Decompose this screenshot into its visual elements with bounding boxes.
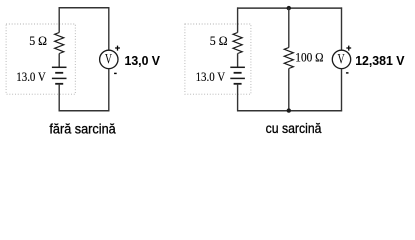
svg-text:13,0 V: 13,0 V bbox=[125, 53, 161, 68]
wire: source branch top (right circuit) bbox=[237, 7, 239, 32]
voltmeter M2 (right circuit) bbox=[332, 50, 350, 68]
wire: resistor to battery (left circuit) bbox=[58, 54, 60, 68]
dotted box: ideal source boundary (left circuit) bbox=[6, 24, 75, 94]
wire: source branch top (left circuit) bbox=[58, 7, 60, 32]
battery B1 13.0 V (left circuit) bbox=[52, 67, 67, 84]
wire: voltmeter branch bottom (left circuit) bbox=[108, 69, 110, 112]
node: bottom junction (right circuit) bbox=[287, 108, 291, 112]
svg-text:fără sarcină: fără sarcină bbox=[49, 121, 115, 137]
wire: voltmeter branch top (right circuit) bbox=[341, 7, 343, 50]
wire: bottom rail (left circuit) bbox=[59, 110, 110, 112]
wire: top rail (right circuit) bbox=[237, 7, 342, 9]
wire: battery to bottom rail (right circuit) bbox=[237, 84, 239, 112]
resistor R1 (internal resistance, left circuit) bbox=[55, 33, 64, 54]
svg-text:cu sarcină: cu sarcină bbox=[266, 120, 322, 136]
dotted box: ideal source boundary (right circuit) bbox=[185, 24, 251, 94]
wire: voltmeter branch bottom (right circuit) bbox=[341, 69, 343, 112]
resistor R3 100 Ω load (right circuit) bbox=[284, 48, 293, 69]
battery B2 13.0 V (right circuit) bbox=[230, 67, 245, 84]
wire: battery to bottom rail (left circuit) bbox=[58, 84, 60, 112]
svg-text:5 Ω: 5 Ω bbox=[29, 34, 47, 48]
svg-text:V: V bbox=[105, 51, 112, 67]
wire: voltmeter branch top (left circuit) bbox=[108, 7, 110, 50]
svg-text:12,381 V: 12,381 V bbox=[355, 53, 405, 68]
wire: top rail (left circuit) bbox=[59, 7, 110, 9]
svg-text:+: + bbox=[115, 43, 120, 53]
node: top junction (right circuit) bbox=[287, 6, 291, 10]
svg-text:13.0 V: 13.0 V bbox=[196, 70, 226, 84]
svg-text:V: V bbox=[338, 51, 345, 67]
svg-text:+: + bbox=[346, 43, 351, 53]
voltmeter M1 (left circuit) bbox=[100, 50, 118, 68]
svg-text:13.0 V: 13.0 V bbox=[16, 70, 46, 84]
svg-text:-: - bbox=[346, 68, 349, 78]
svg-text:100 Ω: 100 Ω bbox=[295, 50, 323, 64]
wire: bottom rail (right circuit) bbox=[237, 110, 342, 112]
wire: resistor to battery (right circuit) bbox=[237, 54, 239, 68]
resistor R2 (internal resistance, right circuit) bbox=[233, 33, 242, 54]
svg-text:5 Ω: 5 Ω bbox=[210, 34, 228, 48]
wire: load branch bottom (right circuit) bbox=[288, 69, 290, 111]
wire: load branch top (right circuit) bbox=[288, 8, 290, 47]
svg-text:-: - bbox=[114, 68, 117, 78]
